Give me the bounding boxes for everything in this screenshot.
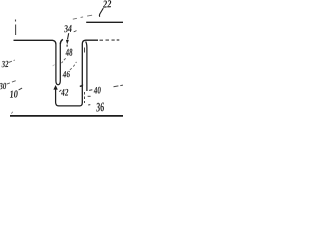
top right edge line <box>86 21 123 23</box>
svg-text:46: 46 <box>62 70 71 80</box>
hidden edge dashed vertical x=15.5 <box>15 20 17 36</box>
hidden dashed line x=84.5 <box>84 48 86 104</box>
leader of 22 <box>99 8 103 17</box>
seat arrow (vessel left edge) arrowhead <box>53 85 57 90</box>
svg-text:22: 22 <box>102 0 113 11</box>
right inner wall <box>86 42 87 92</box>
dash leader of 40 <box>89 89 92 92</box>
left rim surface <box>14 40 56 44</box>
down arrow of 34 <box>68 33 69 39</box>
tip hidden dash near 40 <box>88 95 91 97</box>
svg-text:32: 32 <box>1 60 9 70</box>
tick of 10 <box>19 88 23 90</box>
vessel bottom and right outer wall and right rim <box>58 40 98 106</box>
tick of 42 <box>59 90 61 92</box>
right outer wall foot knot <box>80 85 83 87</box>
svg-text:34: 34 <box>63 24 72 35</box>
stray dash upper right of 40 <box>114 85 124 87</box>
svg-text:40: 40 <box>93 85 101 96</box>
dashed leader of 30 <box>7 81 16 84</box>
seat arrow stem into vessel bottom <box>56 89 59 106</box>
faint mark left of wall <box>53 65 55 66</box>
right rim dashed continuation <box>100 39 120 41</box>
dashed leader of 34 going up-right <box>73 15 92 19</box>
small tick right of 34 <box>74 31 77 32</box>
inner lip spur <box>60 39 63 44</box>
svg-text:42: 42 <box>60 87 69 98</box>
svg-text:30: 30 <box>0 82 7 92</box>
svg-text:36: 36 <box>95 99 105 114</box>
dot leader of 36 <box>88 104 90 106</box>
left wall pair with U bottom and inner lip <box>56 44 60 85</box>
dashed leader of 48 down-left <box>62 58 66 63</box>
small tick above base line end <box>11 112 13 114</box>
svg-text:48: 48 <box>65 48 74 59</box>
dashed leader of 32 <box>9 60 15 62</box>
dotted leader of 46 up-right <box>70 62 77 70</box>
svg-text:10: 10 <box>9 89 19 100</box>
long base line <box>10 115 123 117</box>
